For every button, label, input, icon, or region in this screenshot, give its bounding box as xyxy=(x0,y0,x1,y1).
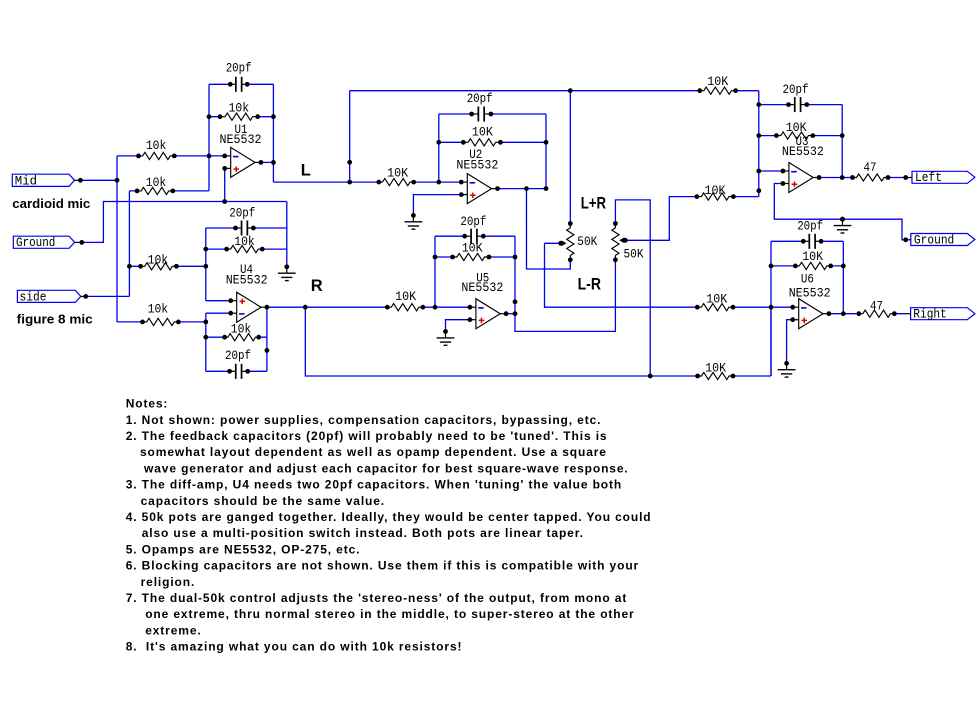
svg-text:10K: 10K xyxy=(706,292,727,306)
svg-text:6. Blocking capacitors are not: 6. Blocking capacitors are not shown. Us… xyxy=(126,559,639,573)
svg-text:also use a multi-position swit: also use a multi-position switch instead… xyxy=(142,526,584,540)
svg-text:4. 50k pots are ganged togethe: 4. 50k pots are ganged together. Ideally… xyxy=(126,510,652,524)
svg-text:10K: 10K xyxy=(705,184,726,198)
svg-text:NE5532: NE5532 xyxy=(226,273,268,287)
svg-text:NE5532: NE5532 xyxy=(220,133,262,147)
svg-text:10k: 10k xyxy=(234,235,255,249)
svg-text:10k: 10k xyxy=(231,322,252,336)
svg-text:10K: 10K xyxy=(462,242,483,256)
svg-text:L: L xyxy=(301,161,311,179)
svg-text:one extreme, thru normal stere: one extreme, thru normal stereo in the m… xyxy=(145,607,634,621)
svg-text:50K: 50K xyxy=(577,235,597,249)
svg-text:10k: 10k xyxy=(148,302,169,316)
svg-text:Ground: Ground xyxy=(16,236,55,250)
svg-text:20pf: 20pf xyxy=(226,62,252,76)
svg-text:10K: 10K xyxy=(705,361,726,375)
svg-text:cardioid mic: cardioid mic xyxy=(12,196,90,211)
svg-text:extreme.: extreme. xyxy=(145,623,201,637)
svg-text:Left: Left xyxy=(915,171,942,185)
svg-text:Ground: Ground xyxy=(914,234,954,248)
svg-text:2. The feedback capacitors (20: 2. The feedback capacitors (20pf) will p… xyxy=(126,429,608,443)
svg-text:50K: 50K xyxy=(624,248,644,262)
svg-text:R: R xyxy=(311,277,323,295)
svg-text:L-R: L-R xyxy=(578,275,601,293)
svg-text:10K: 10K xyxy=(387,167,408,181)
svg-text:20pf: 20pf xyxy=(225,349,251,363)
svg-text:U6: U6 xyxy=(801,273,814,287)
svg-text:NE5532: NE5532 xyxy=(782,145,824,159)
svg-text:3. The diff-amp, U4 needs two: 3. The diff-amp, U4 needs two 20pf capac… xyxy=(126,478,622,492)
svg-text:side: side xyxy=(20,290,47,304)
svg-text:20pf: 20pf xyxy=(797,219,823,233)
svg-text:8. It's amazing what you can: 8. It's amazing what you can do with 10k… xyxy=(126,640,463,654)
svg-text:20pf: 20pf xyxy=(229,207,255,221)
svg-text:10K: 10K xyxy=(395,290,416,304)
svg-text:Mid: Mid xyxy=(15,174,37,188)
svg-text:Notes:: Notes: xyxy=(126,397,169,411)
svg-text:capacitors should be the same: capacitors should be the same value. xyxy=(141,494,385,508)
svg-text:20pf: 20pf xyxy=(783,83,809,97)
svg-text:NE5532: NE5532 xyxy=(456,158,498,172)
svg-text:10K: 10K xyxy=(707,75,728,89)
svg-text:5. Opamps are NE5532, OP-275,: 5. Opamps are NE5532, OP-275, etc. xyxy=(126,542,361,556)
svg-text:Right: Right xyxy=(913,308,947,322)
svg-text:20pf: 20pf xyxy=(460,215,486,229)
svg-text:47: 47 xyxy=(864,161,877,175)
svg-text:10K: 10K xyxy=(786,121,807,135)
svg-text:10k: 10k xyxy=(229,102,250,116)
svg-text:NE5532: NE5532 xyxy=(789,286,831,300)
svg-text:7. The dual-50k control adjust: 7. The dual-50k control adjusts the 'ste… xyxy=(126,591,628,605)
svg-text:somewhat layout dependent as w: somewhat layout dependent as well as opa… xyxy=(140,445,607,459)
svg-text:L+R: L+R xyxy=(581,195,606,213)
svg-text:1. Not shown: power supplies,: 1. Not shown: power supplies, compensati… xyxy=(126,413,602,427)
svg-text:10k: 10k xyxy=(146,139,167,153)
svg-text:47: 47 xyxy=(870,300,883,314)
svg-text:10K: 10K xyxy=(802,250,823,264)
svg-text:20pf: 20pf xyxy=(467,92,493,106)
svg-text:figure 8 mic: figure 8 mic xyxy=(17,311,93,326)
svg-text:10k: 10k xyxy=(146,176,167,190)
svg-text:10K: 10K xyxy=(472,126,493,140)
svg-text:wave generator and adjust each: wave generator and adjust each capacitor… xyxy=(143,461,629,475)
svg-text:religion.: religion. xyxy=(141,575,196,589)
svg-text:NE5532: NE5532 xyxy=(461,281,503,295)
svg-text:10k: 10k xyxy=(148,253,169,267)
